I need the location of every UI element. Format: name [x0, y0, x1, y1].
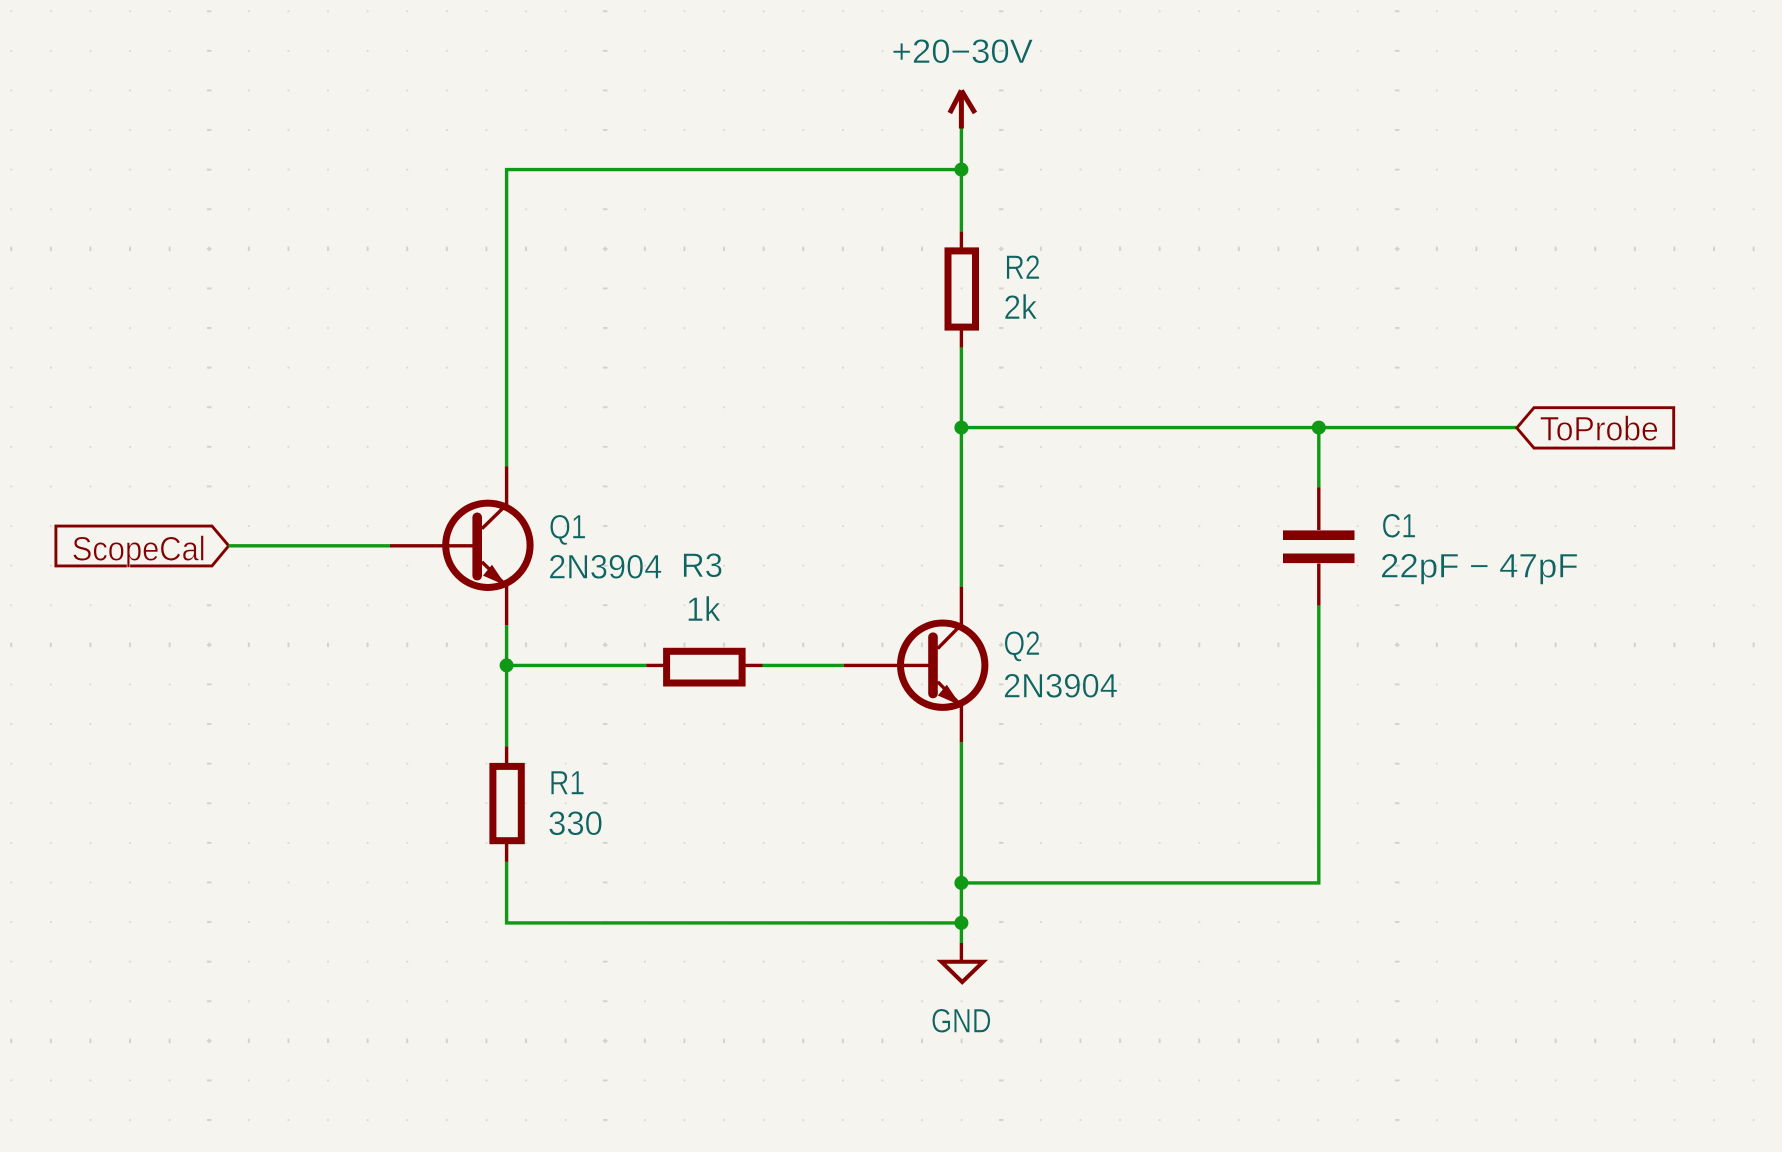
power symbol +20-30V — [950, 91, 975, 129]
wire power stub — [960, 129, 963, 170]
wire mid rail to ToProbe — [961, 426, 1516, 429]
junction mid rail C1 — [1312, 421, 1326, 435]
transistor Q1 — [390, 466, 530, 625]
wire Q1 emitter down through base node — [505, 625, 508, 746]
svg-text:Q2: Q2 — [1004, 625, 1041, 663]
wire junction to R2 top — [960, 170, 963, 232]
wire C1 bottom to ground rail — [961, 605, 1318, 883]
capacitor C1 — [1283, 488, 1355, 606]
svg-text:R2: R2 — [1005, 249, 1041, 287]
svg-text:+20−30V: +20−30V — [892, 33, 1034, 71]
junction at power rail — [954, 163, 968, 177]
wire mid junction down to Q2 collector — [960, 428, 963, 587]
svg-text:C1: C1 — [1382, 508, 1417, 546]
svg-text:2k: 2k — [1004, 289, 1038, 327]
svg-text:330: 330 — [548, 805, 603, 843]
wire R3 to Q2 base — [763, 664, 844, 667]
resistor R1 — [493, 746, 521, 862]
wire top rail to Q1 collector — [507, 170, 962, 467]
svg-text:R3: R3 — [681, 547, 723, 585]
wire ScopeCal to Q1 base — [229, 544, 391, 547]
hierarchical label ToProbe — [1517, 408, 1674, 449]
junction base node — [500, 658, 514, 672]
global label ScopeCal — [56, 526, 229, 568]
svg-text:ScopeCal: ScopeCal — [72, 530, 206, 568]
svg-text:Q1: Q1 — [549, 508, 587, 546]
ground symbol GND — [941, 943, 983, 982]
wire R1 bottom to ground junction — [507, 862, 962, 923]
wire C1 top — [1317, 428, 1320, 488]
wire Q2 emitter to ground rail — [960, 742, 963, 943]
junction ground rail left — [954, 916, 968, 930]
junction ground rail right — [954, 876, 968, 890]
resistor R3 — [646, 651, 762, 683]
svg-text:22pF − 47pF: 22pF − 47pF — [1380, 548, 1579, 586]
svg-text:R1: R1 — [549, 765, 585, 803]
svg-text:2N3904: 2N3904 — [1003, 667, 1118, 705]
svg-text:2N3904: 2N3904 — [548, 549, 662, 587]
transistor Q2 — [844, 587, 985, 743]
svg-text:ToProbe: ToProbe — [1540, 410, 1659, 448]
resistor R2 — [948, 232, 976, 348]
svg-text:GND: GND — [931, 1003, 992, 1041]
junction mid rail R2/Q2 — [954, 421, 968, 435]
svg-text:1k: 1k — [686, 591, 721, 629]
wire R2 bottom to mid junction — [960, 348, 963, 428]
wire base node to R3 — [507, 664, 647, 667]
